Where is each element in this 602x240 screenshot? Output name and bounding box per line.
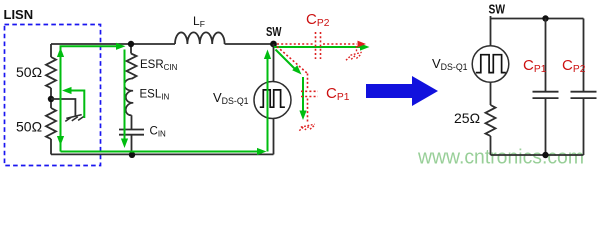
green arrow left toward junction bbox=[62, 87, 72, 94]
red chassis ground CP2 bbox=[346, 46, 362, 60]
node LISN junction bbox=[48, 96, 54, 102]
svg-text:ESRCIN: ESRCIN bbox=[140, 59, 178, 72]
green arrow up beside upper 50ohm bbox=[57, 48, 64, 58]
wire left side lower bbox=[50, 139, 52, 154]
green line SW to CP2 path bbox=[274, 46, 361, 48]
source VDS-Q1 left circle bbox=[254, 82, 291, 119]
resistor 25ohm bbox=[486, 105, 496, 136]
red chassis ground CP1 bbox=[299, 124, 314, 130]
wire right side lower bbox=[273, 119, 275, 155]
green arrow right end of CP2 path bbox=[360, 43, 370, 50]
green arrow diagonal CP1 bbox=[292, 65, 301, 74]
svg-text:25Ω: 25Ω bbox=[454, 110, 480, 126]
capacitor CP2 right plates bbox=[571, 92, 597, 98]
capacitor branch CIN wire top bbox=[130, 44, 132, 54]
red CP1 vertical lower bbox=[307, 99, 309, 124]
svg-text:VDS-Q1: VDS-Q1 bbox=[432, 56, 468, 72]
wire SW right vertical bbox=[490, 16, 492, 46]
svg-text:CP2: CP2 bbox=[306, 11, 330, 29]
wire below source right bbox=[490, 82, 492, 105]
svg-text:VDS-Q1: VDS-Q1 bbox=[213, 90, 249, 106]
svg-text:LF: LF bbox=[193, 14, 205, 29]
red CP2 line from SW bbox=[277, 43, 313, 45]
node CIN top bbox=[128, 41, 134, 47]
capacitor CP2 right branch top wire bbox=[583, 19, 585, 92]
LISN box bbox=[5, 25, 101, 166]
green arrow down beside CIN bbox=[121, 139, 128, 149]
svg-text:ESLIN: ESLIN bbox=[140, 89, 170, 102]
wire left side middle bbox=[50, 88, 52, 108]
ground earth LISN bbox=[65, 115, 84, 122]
green bottom return line bbox=[61, 151, 259, 153]
red CP1 vertical upper bbox=[307, 74, 309, 90]
source VDS-Q1 left pulse glyph bbox=[260, 90, 285, 107]
blue big arrow bbox=[366, 76, 438, 106]
inductor L_F bbox=[175, 32, 225, 44]
wire top rail left segment bbox=[51, 43, 175, 45]
green arrow up to SW bbox=[264, 50, 271, 60]
green line down beside CIN bbox=[124, 50, 126, 140]
capacitor CP2 right bottom wire bbox=[583, 98, 585, 155]
green current path: left loop up line bbox=[61, 46, 118, 151]
resistor 50ohm upper bbox=[46, 57, 56, 88]
svg-text:CP1: CP1 bbox=[523, 57, 547, 75]
inductor ESL_IN bbox=[124, 79, 133, 116]
green arrow right on bottom rail bbox=[257, 148, 267, 155]
resistor 50ohm lower bbox=[46, 108, 56, 139]
green arrow right toward CIN branch bbox=[116, 43, 126, 50]
red CP2 line to arrow bbox=[323, 43, 357, 45]
capacitor CIN wires bbox=[131, 115, 133, 154]
node CP1 top bbox=[542, 15, 548, 21]
red arrow CP2 bbox=[358, 41, 367, 48]
green ground return line bbox=[70, 91, 84, 119]
wire left side upper bbox=[50, 44, 52, 57]
wire top rail right circuit bbox=[491, 18, 584, 20]
capacitor CP1 right bottom wire bbox=[545, 98, 547, 155]
svg-text:50Ω: 50Ω bbox=[16, 119, 42, 135]
green arrow down beside lower 50ohm bbox=[57, 136, 64, 146]
node SW left bbox=[270, 41, 277, 48]
capacitor CP1 parasitic plates bbox=[301, 91, 318, 96]
node CIN bottom bbox=[129, 152, 135, 158]
wire top rail right segment bbox=[225, 43, 274, 45]
node CP1 bottom bbox=[542, 152, 548, 158]
green arrow down CP1 path bbox=[299, 111, 306, 121]
wire below resistor right bbox=[490, 136, 492, 155]
svg-text:CP1: CP1 bbox=[326, 85, 350, 103]
svg-text:50Ω: 50Ω bbox=[16, 64, 42, 80]
svg-text:LISN: LISN bbox=[4, 7, 34, 22]
source VDS-Q1 right circle bbox=[472, 46, 509, 83]
capacitor CIN plates bbox=[119, 130, 144, 135]
capacitor CP1 right plates bbox=[533, 92, 559, 98]
capacitor CP1 right branch top wire bbox=[545, 19, 547, 92]
svg-text:CIN: CIN bbox=[150, 126, 167, 139]
svg-text:SW: SW bbox=[489, 2, 506, 17]
red CP1 diagonal from SW bbox=[277, 47, 308, 74]
svg-text:SW: SW bbox=[266, 24, 282, 39]
wire right side upper bbox=[273, 44, 275, 82]
svg-text:www.cntronics.com: www.cntronics.com bbox=[417, 145, 584, 168]
svg-text:CP2: CP2 bbox=[562, 57, 586, 75]
green diagonal SW to CP1 path bbox=[276, 50, 296, 70]
wire bottom rail right circuit bbox=[491, 154, 584, 156]
wire bottom rail bbox=[51, 153, 274, 155]
green line up to SW bbox=[267, 57, 269, 152]
source VDS-Q1 right pulse glyph bbox=[476, 55, 506, 73]
green line down CP1 path bbox=[302, 77, 304, 111]
capacitor CP2 parasitic plates bbox=[316, 32, 321, 59]
resistor ESR_CIN bbox=[127, 54, 137, 79]
wire ground stub bbox=[51, 99, 75, 116]
